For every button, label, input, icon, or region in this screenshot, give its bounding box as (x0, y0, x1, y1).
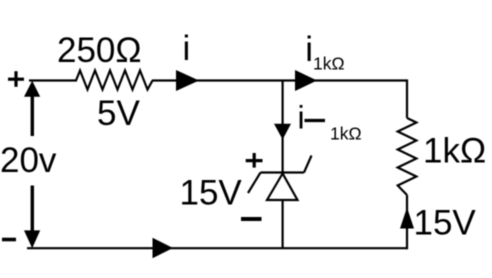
zener branch down arrow (274, 124, 291, 140)
current arrow i on top wire (176, 70, 199, 91)
zener diode D1 lower lead (282, 200, 284, 248)
svg-text:20v: 20v (0, 141, 57, 180)
source V1 up arrow (24, 81, 40, 136)
svg-text:1kΩ: 1kΩ (423, 132, 486, 171)
svg-text:i: i (183, 29, 191, 68)
svg-text:15V: 15V (180, 174, 243, 213)
current arrow i1k on top wire (295, 70, 317, 91)
svg-text:1kΩ: 1kΩ (330, 124, 362, 144)
svg-text:1kΩ: 1kΩ (313, 54, 345, 74)
svg-text:i: i (298, 100, 305, 136)
zener plus sign (246, 153, 263, 168)
source V1 plus sign (8, 71, 24, 87)
resistor R1 250 ohm zigzag (76, 71, 153, 90)
wire bottom horizontal (27, 247, 407, 249)
wire right vertical below resistor (406, 195, 408, 249)
wire top horizontal left of resistor (29, 79, 77, 81)
wire right vertical above resistor (406, 79, 408, 118)
svg-text:i: i (305, 30, 313, 69)
source V1 minus sign (2, 238, 16, 242)
node junction middle top (282, 81, 284, 173)
zener diode D1 triangle (267, 174, 298, 201)
source V1 down arrow (24, 186, 40, 249)
svg-text:5V: 5V (97, 94, 140, 133)
zener minus sign (241, 217, 262, 221)
wire top horizontal right of resistor (152, 79, 407, 81)
resistor R2 up arrow (400, 208, 414, 229)
resistor R2 1k zigzag vertical (398, 118, 417, 195)
current arrow on bottom wire (153, 238, 174, 259)
zener diode D1 cathode bar with bent ends (248, 156, 312, 194)
svg-text:250Ω: 250Ω (57, 31, 142, 70)
svg-text:15V: 15V (414, 204, 477, 243)
